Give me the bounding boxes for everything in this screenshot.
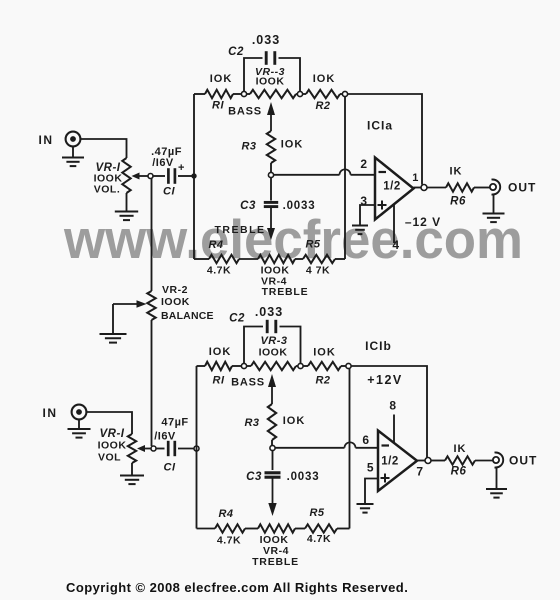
wire VR-2 down to bottom wiper node — [151, 320, 153, 446]
node N1 (top) — [268, 172, 273, 177]
resistor R4 4.7K (bottom) — [215, 508, 245, 547]
svg-text:R4: R4 — [218, 508, 233, 520]
svg-text:1/2: 1/2 — [383, 181, 401, 193]
wire right bus node C to row2 (top) — [344, 97, 346, 260]
svg-text:IOK: IOK — [209, 346, 232, 358]
svg-text:+12V: +12V — [367, 373, 403, 387]
wire R3 to node N1 (top) — [270, 163, 272, 173]
resistor R2 10K (bottom) — [303, 347, 346, 387]
svg-text:–12 V: –12 V — [405, 215, 441, 229]
svg-text:4: 4 — [392, 238, 399, 252]
svg-text:/I6V: /I6V — [152, 157, 174, 169]
svg-text:4.7K: 4.7K — [217, 535, 241, 547]
ground VR-2 wiper — [100, 334, 127, 343]
node N1 (bottom) — [270, 445, 275, 450]
ground pin 5 (bottom) — [357, 504, 374, 513]
svg-text:CI: CI — [164, 462, 176, 474]
potentiometer VR-4 100K treble (bottom) — [252, 524, 299, 568]
label TREBLE (top) — [215, 224, 266, 236]
svg-text:IOOK: IOOK — [256, 76, 285, 88]
wire R1 to node A (bottom) — [232, 365, 242, 367]
label BASS (top) — [228, 106, 262, 118]
wire output to R6 (bottom) — [431, 460, 445, 462]
pin 7 label (bottom) — [416, 465, 423, 479]
wiper arrow VR-3 bass (top) — [267, 102, 275, 131]
ground pin 3 (top) — [352, 226, 368, 235]
svg-text:C3: C3 — [246, 471, 262, 483]
node A bass-left (bottom) — [241, 363, 246, 368]
wire OUT jack to ground (bottom) — [496, 468, 498, 489]
label 1/2 (U1b) — [381, 456, 399, 468]
svg-text:.0033: .0033 — [287, 471, 320, 483]
resistor R6 1K (bottom) — [445, 443, 475, 478]
wiper arrow VR-1 (bottom) — [137, 445, 151, 452]
ground below VR-1 (bottom) — [120, 476, 144, 485]
node output (top) — [421, 185, 427, 191]
connector J1 IN (top) — [39, 132, 81, 147]
svg-text:VR-2: VR-2 — [162, 284, 188, 296]
node B bass-right (bottom) — [298, 363, 303, 368]
wiper arrow to VR-4 (top) — [267, 207, 275, 241]
resistor R3 10K (bottom) — [244, 404, 305, 440]
wire wiper node down to VR-2 — [151, 179, 153, 292]
svg-text:IOK: IOK — [210, 73, 233, 85]
wire OUT jack to ground (top) — [493, 195, 495, 214]
svg-text:2: 2 — [360, 157, 367, 171]
svg-text:4.7K: 4.7K — [307, 533, 331, 545]
wire left corner row2 (top) — [194, 258, 209, 260]
label 1/2 (U1a) — [383, 181, 401, 193]
pin 8 label (bottom) — [389, 399, 396, 413]
node output (bottom) — [425, 458, 431, 464]
pin 6 label (bottom) — [362, 433, 369, 447]
capacitor C1 47uF/16V (bottom) — [154, 417, 188, 474]
wire J1 to VR-1 top — [80, 139, 127, 158]
svg-text:4.7K: 4.7K — [207, 265, 231, 277]
svg-text:R2: R2 — [315, 100, 330, 112]
resistor R2 10K (top) — [303, 73, 343, 112]
ground below VR-1 (top) — [115, 212, 138, 221]
resistor R5 4.7K (bottom) — [305, 507, 337, 545]
wire VR-1 bottom to ground (top) — [126, 193, 128, 211]
ground below OUT (bottom) — [486, 489, 507, 498]
feedback wire node C to output (top) — [348, 94, 423, 185]
potentiometer VR-3 100K bass (bottom) — [247, 335, 299, 370]
watermark www.elecfree.com — [63, 208, 523, 270]
resistor R4 4.7K (top) — [207, 239, 239, 277]
svg-text:VR-3: VR-3 — [260, 335, 287, 347]
svg-text:ICIb: ICIb — [365, 339, 392, 353]
svg-text:VOL: VOL — [98, 452, 121, 464]
wiper arrow VR-1 (top) — [132, 173, 149, 180]
wire R4 to VR-4 (bottom) — [245, 528, 258, 530]
pin 2 label (top) — [360, 157, 367, 171]
svg-text:C2: C2 — [229, 313, 245, 325]
svg-text:IOK: IOK — [313, 347, 336, 359]
wire R4 to VR-4 (top) — [239, 258, 258, 260]
label BASS (bottom) — [231, 377, 265, 389]
svg-text:C2: C2 — [228, 46, 244, 58]
wire R3 to node N1 (bottom) — [271, 440, 273, 446]
svg-text:R6: R6 — [451, 466, 467, 478]
wire wiper node to C1 (top) — [153, 175, 165, 177]
wire left corner row1 (top) — [194, 93, 205, 95]
svg-text:BASS: BASS — [231, 377, 265, 389]
svg-text:ICIa: ICIa — [367, 119, 393, 133]
op-amp U1a triangle — [375, 158, 414, 220]
resistor R5 4.7K (top) — [303, 239, 335, 277]
wire R1 to node A (top) — [233, 93, 242, 95]
svg-text:RI: RI — [213, 375, 225, 387]
node B bass-right (top) — [297, 91, 302, 96]
label -12 V (top) — [405, 215, 441, 229]
op-amp U1b plus sign — [381, 474, 390, 483]
node wiper VR-1 (bottom) — [151, 446, 156, 451]
wire op-amp output to node (top) — [414, 187, 422, 189]
node wiper VR-1 (top) — [148, 174, 153, 179]
pin 5 wire to ground (bottom) — [365, 479, 378, 504]
wire N1 to op-amp pin6 with hop (bottom) — [275, 442, 378, 448]
wire C1 to junction (bottom) — [178, 448, 195, 450]
svg-text:6: 6 — [362, 433, 369, 447]
junction input node (top) — [191, 173, 196, 178]
ground below OUT (top) — [483, 214, 505, 223]
svg-text:IOK: IOK — [313, 73, 336, 85]
wire VR-2 wiper to ground — [112, 304, 114, 333]
svg-text:.0033: .0033 — [283, 200, 316, 212]
wire C2 left leg (bottom) — [244, 327, 263, 364]
svg-text:TREBLE: TREBLE — [215, 224, 266, 236]
svg-text:R2: R2 — [315, 375, 330, 387]
svg-text:R5: R5 — [309, 507, 324, 519]
pin 5 label (bottom) — [367, 461, 374, 475]
svg-text:47µF: 47µF — [161, 417, 188, 429]
svg-text:VOL.: VOL. — [94, 184, 121, 196]
wire R6 to OUT jack (top) — [474, 187, 490, 189]
svg-text:R3: R3 — [241, 141, 256, 153]
label +12V (bottom) — [367, 373, 403, 387]
label IC1a — [367, 119, 393, 133]
resistor R6 1K (top) — [446, 166, 474, 208]
capacitor C2 .033 (bottom) — [229, 305, 283, 333]
svg-text:IOK: IOK — [283, 415, 306, 427]
svg-text:IOOK: IOOK — [259, 347, 288, 359]
pin 1 label (top) — [412, 172, 419, 184]
svg-text:IOOK: IOOK — [98, 440, 127, 452]
node C feedback (top) — [342, 91, 347, 96]
svg-text:4 7K: 4 7K — [306, 265, 330, 277]
node A bass-left (top) — [241, 91, 246, 96]
label IC1b — [365, 339, 392, 353]
resistor R3 10K (top) — [241, 131, 303, 163]
wire output to R6 (top) — [427, 187, 446, 189]
wire VR-1 bottom to ground (bottom) — [131, 463, 133, 475]
node C feedback (bottom) — [346, 363, 351, 368]
svg-text:IOOK: IOOK — [161, 296, 190, 308]
wire C2 right leg (bottom) — [280, 327, 301, 364]
op-amp U1b minus sign — [382, 444, 390, 446]
connector OUT jack (top) — [490, 180, 500, 195]
potentiometer VR-4 100K treble (top) — [258, 255, 308, 298]
wire left bus (top channel) — [193, 94, 195, 259]
pin 3 wire to ground (top) — [360, 205, 375, 225]
resistor R1 10K (top) — [205, 73, 233, 112]
pin 8 wire (bottom) — [393, 415, 395, 444]
pin 4 label (top) — [392, 238, 399, 252]
svg-text:IOK: IOK — [281, 139, 304, 151]
capacitor C3 .0033 (bottom) — [246, 451, 319, 484]
svg-text:OUT: OUT — [509, 454, 537, 468]
wire J2 to VR-1 top (bottom) — [86, 412, 132, 434]
wire wiper node to C1 (bottom) — [156, 448, 165, 450]
wire right bus node C to row2 (bottom) — [349, 369, 351, 529]
label OUT (top) — [508, 181, 536, 195]
svg-text:1: 1 — [412, 172, 419, 184]
svg-text:C3: C3 — [240, 200, 256, 212]
wire C2 left leg (top) — [244, 58, 263, 92]
svg-text:OUT: OUT — [508, 181, 536, 195]
feedback wire node C to output (bottom) — [351, 366, 427, 458]
potentiometer VR-1 100K VOL. (top) — [94, 158, 131, 196]
op-amp U1b triangle — [378, 431, 417, 492]
svg-text:R6: R6 — [450, 196, 466, 208]
svg-text:BALANCE: BALANCE — [161, 310, 214, 322]
svg-text:VR-I: VR-I — [100, 428, 125, 440]
wire N1 to op-amp pin2 with hop (top) — [274, 169, 376, 174]
capacitor C3 .0033 (top) — [240, 178, 315, 213]
capacitor C1 .47uF/16V (top) — [151, 146, 185, 198]
connector OUT jack (bottom) — [493, 453, 503, 468]
wire R5 to right bus (top) — [335, 258, 345, 260]
wire VR-4 to R5 (top) — [295, 258, 303, 260]
svg-text:IK: IK — [450, 166, 463, 178]
svg-text:TREBLE: TREBLE — [252, 556, 299, 568]
wire R6 to OUT jack (bottom) — [475, 460, 493, 462]
svg-text:IK: IK — [454, 443, 467, 455]
copyright text — [66, 580, 408, 595]
pin 3 label (top) — [360, 194, 367, 208]
svg-text:RI: RI — [212, 100, 224, 112]
wire C2 right leg (top) — [279, 58, 301, 92]
svg-text:8: 8 — [389, 399, 396, 413]
svg-text:1/2: 1/2 — [381, 456, 399, 468]
svg-text:+: + — [178, 162, 185, 174]
op-amp U1a minus sign — [379, 171, 387, 173]
svg-text:5: 5 — [367, 461, 374, 475]
wire R5 to right bus (bottom) — [337, 528, 350, 530]
wire left bus (bottom channel) — [196, 366, 198, 529]
potentiometer VR-3 100K bass (top) — [247, 66, 298, 98]
wire op-amp output to node (bottom) — [417, 460, 425, 462]
svg-text:/I6V: /I6V — [154, 431, 176, 443]
wiper arrow to VR-4 (bottom) — [268, 478, 276, 517]
capacitor C2 .033 (top) — [228, 33, 280, 65]
wiper arrow VR-3 bass (bottom) — [268, 374, 276, 404]
potentiometer VR-2 100K balance — [147, 284, 213, 322]
wire VR-4 to R5 (bottom) — [295, 528, 305, 530]
svg-text:CI: CI — [163, 186, 175, 198]
wire left corner row2 (bottom) — [197, 528, 216, 530]
svg-text:R5: R5 — [305, 239, 320, 251]
svg-text:IN: IN — [43, 406, 58, 420]
svg-text:R4: R4 — [208, 239, 223, 251]
svg-text:R3: R3 — [244, 417, 259, 429]
svg-text:.033: .033 — [255, 305, 283, 319]
svg-text:7: 7 — [416, 465, 423, 479]
svg-text:Copyright © 2008 elecfree.com: Copyright © 2008 elecfree.com All Rights… — [66, 580, 408, 595]
op-amp U1a plus sign — [378, 201, 387, 210]
junction input node (bottom) — [194, 446, 199, 451]
svg-text:IN: IN — [39, 133, 54, 147]
wiper arrow VR-2 — [113, 300, 147, 308]
svg-text:TREBLE: TREBLE — [262, 286, 309, 298]
wire C1 to junction (top) — [178, 175, 194, 177]
svg-text:.033: .033 — [252, 33, 280, 47]
resistor R1 10K (bottom) — [205, 346, 232, 387]
svg-text:BASS: BASS — [228, 106, 262, 118]
wire left corner row1 (bottom) — [197, 365, 206, 367]
label OUT (bottom) — [509, 454, 537, 468]
connector J2 IN (bottom) — [43, 405, 87, 420]
potentiometer VR-1 100K VOL (bottom) — [98, 428, 137, 464]
ground below J1 (top) — [62, 146, 84, 166]
pin 4 wire (top) — [393, 204, 395, 244]
ground below J2 (bottom) — [68, 419, 91, 438]
